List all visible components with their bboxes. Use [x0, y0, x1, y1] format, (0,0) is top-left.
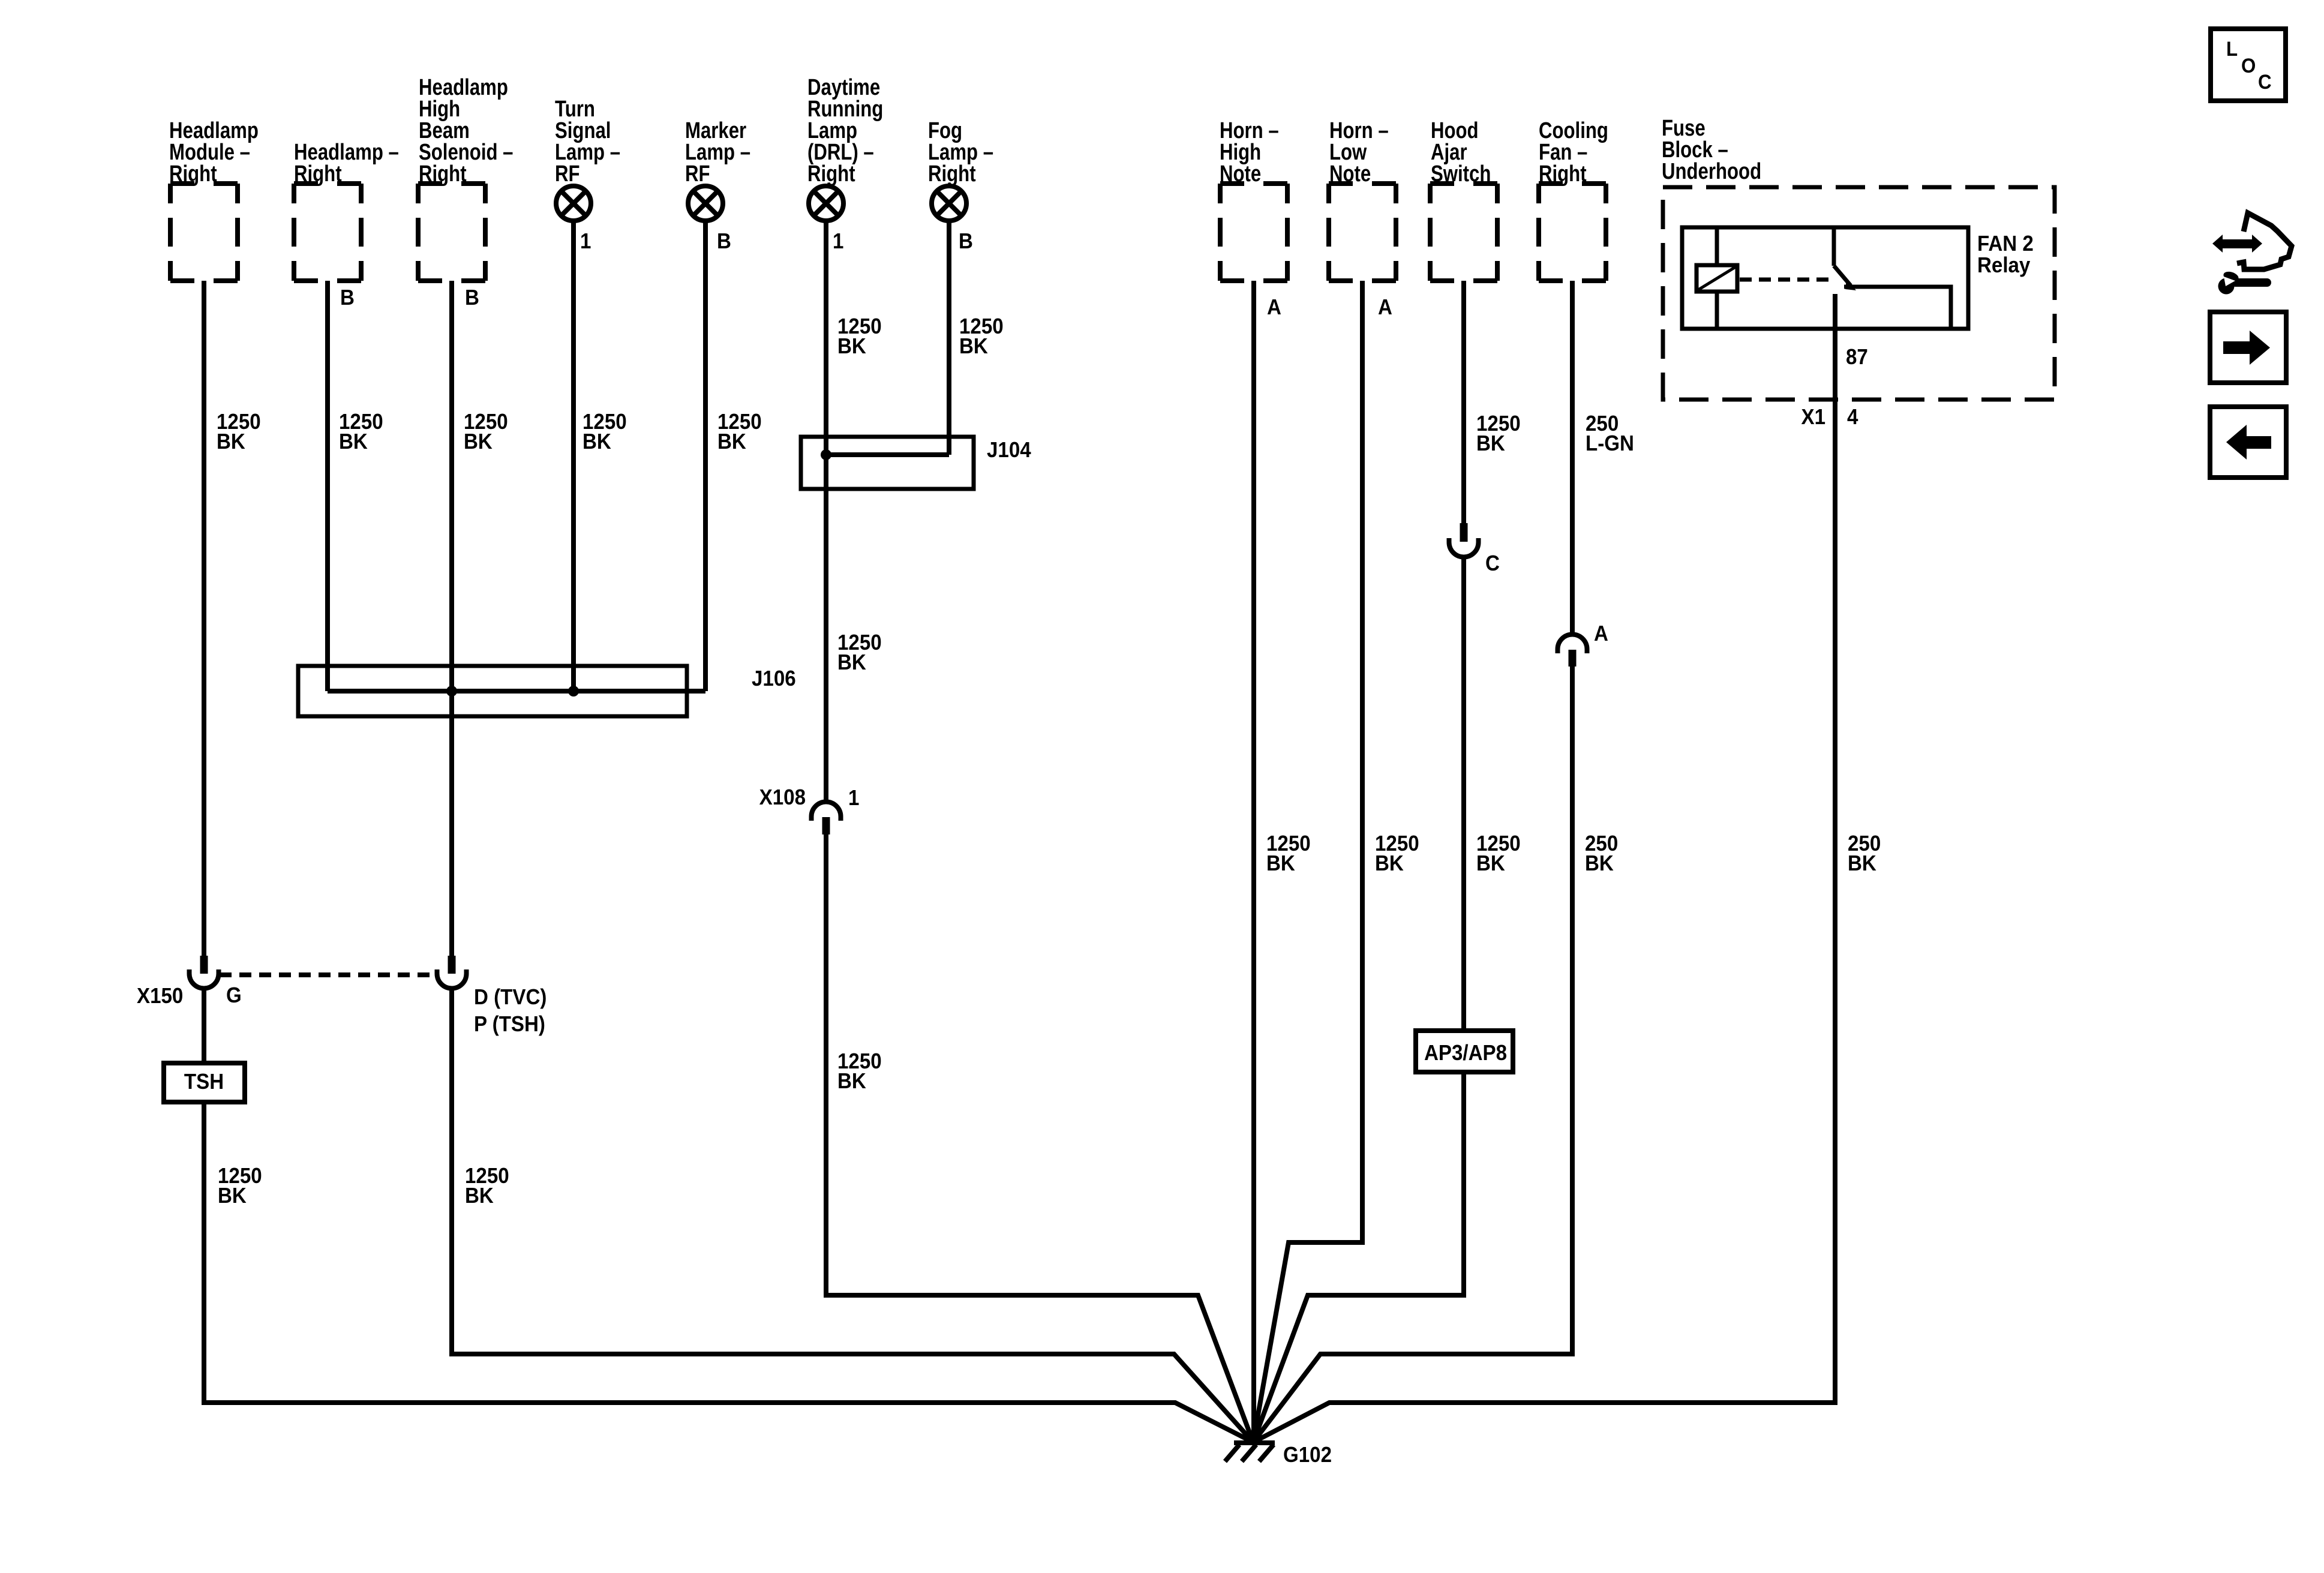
svg-text:G: G: [226, 984, 242, 1008]
service icon component outline: [2237, 213, 2292, 269]
wire cooling fan to A connector: [1570, 281, 1575, 635]
wire horn low note to G102: [1253, 281, 1362, 1442]
wire headlamp right to J106: [325, 281, 330, 691]
wire fuse block relay pin 87 to G102: [1253, 294, 1835, 1442]
svg-text:X150: X150: [137, 984, 183, 1008]
wire label 1250 BK headlamp module: [217, 410, 261, 454]
svg-text:BK: BK: [218, 1184, 247, 1208]
wire label 250 BK fuse block: [1848, 832, 1881, 876]
label TSH: [184, 1070, 224, 1094]
LOC info box: [2211, 29, 2286, 101]
previous page arrow box: [2210, 407, 2286, 478]
svg-text:X108: X108: [759, 786, 806, 810]
FAN 2 relay outline: [1682, 227, 1968, 329]
svg-text:1: 1: [580, 230, 591, 254]
wire DRL lamp through J104 to X108: [824, 221, 828, 803]
label X1 pin 4: [1847, 406, 1858, 430]
headlamp high beam solenoid box: [418, 184, 485, 281]
headlamp right box: [294, 184, 361, 281]
wire label 1250 BK fog: [959, 315, 1004, 359]
wire label 1250 BK TSH lower: [218, 1164, 262, 1208]
svg-text:B: B: [717, 230, 731, 254]
label X108: [759, 786, 806, 810]
svg-text:G102: G102: [1283, 1443, 1332, 1467]
wire fog lamp to J104 bus: [947, 221, 951, 455]
svg-text:BK: BK: [717, 430, 746, 454]
wire AP3/AP8 to G102: [1253, 1072, 1464, 1442]
pin 1 DRL lamp: [833, 230, 843, 254]
wire solenoid through J106 to D connector: [449, 281, 454, 956]
svg-text:P (TSH): P (TSH): [474, 1013, 545, 1037]
svg-text:BK: BK: [582, 430, 611, 454]
wire horn high note to G102: [1251, 281, 1256, 1442]
svg-text:B: B: [465, 286, 479, 310]
wire label 1250 BK hood ajar lower: [1476, 832, 1521, 876]
wire label 250 L-GN cooling fan: [1586, 412, 1634, 456]
pin A horn low: [1378, 296, 1392, 320]
svg-text:J106: J106: [752, 667, 796, 691]
svg-text:X1: X1: [1801, 406, 1825, 430]
wire label 1250 BK headlamp right: [339, 410, 383, 454]
svg-text:O: O: [2241, 54, 2256, 77]
label X150: [137, 984, 183, 1008]
svg-text:BK: BK: [464, 430, 493, 454]
relay coil: [1697, 265, 1737, 292]
svg-text:BK: BK: [1848, 852, 1876, 876]
splice AP3/AP8 box: [1416, 1031, 1513, 1072]
pin A horn high: [1267, 296, 1281, 320]
label AP3/AP8: [1424, 1041, 1507, 1065]
wire X108 to G102: [826, 834, 1253, 1442]
junction block J106: [298, 666, 687, 716]
connector D (TVC) / P (TSH): [437, 956, 467, 989]
label Headlamp High Beam Solenoid - Right: [419, 75, 513, 187]
svg-text:L-GN: L-GN: [1586, 432, 1634, 456]
svg-text:FAN 2: FAN 2: [1977, 232, 2034, 256]
svg-text:A: A: [1378, 296, 1392, 320]
svg-text:BK: BK: [339, 430, 368, 454]
svg-text:BK: BK: [1476, 432, 1505, 456]
label X108 pin 1: [848, 786, 859, 810]
svg-text:BK: BK: [1476, 852, 1505, 876]
fuse block underhood dashed box: [1663, 187, 2055, 400]
next page arrow box: [2210, 312, 2286, 383]
daytime running lamp symbol: [809, 186, 843, 221]
cooling fan right box: [1539, 184, 1606, 281]
wire headlamp module to X150: [202, 281, 206, 956]
pin 1 turn signal lamp: [580, 230, 591, 254]
svg-text:4: 4: [1847, 406, 1858, 430]
wire hood ajar switch to C connector: [1461, 281, 1466, 523]
label X1: [1801, 406, 1825, 430]
connector C hood ajar: [1449, 523, 1479, 557]
label J106: [752, 667, 796, 691]
pin B headlamp right: [340, 286, 355, 310]
label pin G: [226, 984, 242, 1008]
service icon wrench: [2218, 270, 2268, 295]
pin B marker lamp: [717, 230, 731, 254]
wire A connector to G102: [1253, 667, 1572, 1442]
svg-text:C: C: [1485, 552, 1500, 576]
pin B solenoid: [465, 286, 479, 310]
wire label 250 BK cooling fan lower: [1585, 832, 1618, 876]
label Horn - High Note: [1220, 118, 1279, 187]
wire label 1250 BK horn low: [1375, 832, 1419, 876]
label Relay: [1977, 254, 2031, 278]
relay coil-switch dashed link: [1740, 278, 1831, 282]
relay contact line: [1844, 287, 1951, 329]
label Marker Lamp - RF: [685, 118, 750, 187]
connector X108 pin 1: [812, 801, 841, 834]
svg-text:1: 1: [848, 786, 859, 810]
ground G102 symbol: [1225, 1443, 1275, 1461]
wire label 1250 BK turn signal: [582, 410, 627, 454]
svg-text:D (TVC): D (TVC): [474, 986, 547, 1010]
svg-text:Underhood: Underhood: [1662, 159, 1761, 184]
svg-text:BK: BK: [1266, 852, 1295, 876]
svg-text:Relay: Relay: [1977, 254, 2031, 278]
wire turn signal lamp to J106: [571, 221, 576, 691]
J106 bus wire: [328, 689, 705, 694]
svg-text:RF: RF: [555, 161, 580, 187]
service icon double arrow: [2212, 235, 2262, 253]
relay divider: [1715, 227, 1719, 329]
wire label 1250 BK horn high: [1266, 832, 1311, 876]
label J104: [987, 439, 1031, 463]
wire label 1250 BK hood ajar upper: [1476, 412, 1521, 456]
label Cooling Fan - Right: [1539, 118, 1608, 187]
connector A cooling fan: [1558, 635, 1587, 667]
turn signal lamp RF symbol: [556, 186, 591, 221]
label Turn Signal Lamp - RF: [555, 97, 620, 187]
wire label 1250 BK DRL upper: [837, 315, 882, 359]
pin B fog lamp: [959, 230, 973, 254]
junction block J104: [801, 437, 974, 489]
headlamp module right box: [170, 184, 238, 281]
wire label 1250 BK DRL lower: [837, 1050, 882, 1094]
svg-text:TSH: TSH: [184, 1070, 224, 1094]
label Headlamp Module - Right: [169, 118, 259, 187]
svg-text:BK: BK: [217, 430, 245, 454]
label Hood Ajar Switch: [1431, 118, 1491, 187]
label Fuse Block - Underhood: [1662, 116, 1761, 184]
dashed connector link X150: [220, 972, 437, 977]
splice TSH box: [164, 1063, 245, 1102]
horn low note box: [1329, 184, 1396, 281]
marker lamp RF symbol: [688, 186, 723, 221]
svg-text:BK: BK: [1375, 852, 1404, 876]
J106 junction dot solenoid wire: [446, 686, 457, 697]
fog lamp right symbol: [932, 186, 966, 221]
svg-text:BK: BK: [1585, 852, 1614, 876]
svg-text:87: 87: [1846, 346, 1868, 370]
relay switch pivot: [1832, 227, 1836, 266]
label pin 87: [1846, 346, 1868, 370]
svg-text:BK: BK: [837, 335, 866, 359]
svg-text:Right: Right: [807, 161, 855, 187]
svg-text:BK: BK: [465, 1184, 494, 1208]
svg-text:J104: J104: [987, 439, 1031, 463]
J104 junction dot: [821, 449, 831, 460]
label P (TSH): [474, 1013, 545, 1037]
svg-text:1: 1: [833, 230, 843, 254]
svg-text:A: A: [1594, 622, 1608, 646]
wire TSH to G102: [204, 1102, 1253, 1442]
svg-text:L: L: [2226, 37, 2238, 61]
label Fog Lamp - Right: [928, 118, 993, 187]
wire label 1250 BK marker: [717, 410, 762, 454]
label Horn - Low Note: [1329, 118, 1389, 187]
svg-text:A: A: [1267, 296, 1281, 320]
relay switch arm: [1834, 266, 1856, 290]
wire label 1250 BK DRL mid: [837, 631, 882, 675]
svg-text:BK: BK: [837, 651, 866, 675]
label Headlamp - Right: [294, 140, 399, 187]
svg-text:AP3/AP8: AP3/AP8: [1424, 1041, 1507, 1065]
wire X150 to TSH: [202, 987, 206, 1063]
svg-text:BK: BK: [959, 335, 988, 359]
svg-text:B: B: [959, 230, 973, 254]
label G102: [1283, 1443, 1332, 1467]
label Daytime Running Lamp (DRL) - Right: [807, 75, 883, 187]
svg-text:BK: BK: [837, 1070, 866, 1094]
label FAN 2: [1977, 232, 2034, 256]
J104 bus wire: [826, 452, 949, 457]
svg-text:RF: RF: [685, 161, 710, 187]
svg-text:B: B: [340, 286, 355, 310]
label pin C: [1485, 552, 1500, 576]
wire label 1250 BK solenoid lower: [465, 1164, 509, 1208]
J106 junction dot turn signal wire: [568, 686, 579, 697]
hood ajar switch box: [1430, 184, 1497, 281]
wire C connector to AP3/AP8: [1461, 557, 1466, 1031]
wire D connector to G102: [452, 987, 1253, 1442]
wire label 1250 BK solenoid: [464, 410, 508, 454]
svg-text:Right: Right: [928, 161, 976, 187]
label D (TVC): [474, 986, 547, 1010]
connector X150 pin G: [190, 956, 219, 989]
wire marker lamp to J106 bus: [703, 221, 708, 691]
svg-text:C: C: [2258, 70, 2272, 94]
horn high note box: [1220, 184, 1287, 281]
label pin A cooling fan: [1594, 622, 1608, 646]
